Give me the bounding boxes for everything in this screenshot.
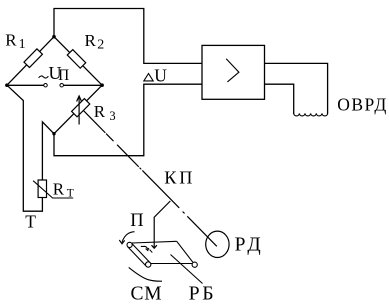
svg-text:СМ: СМ [131,284,163,303]
svg-text:3: 3 [109,109,115,123]
wire right supply terminal to right node [64,84,103,86]
svg-text:ОВРД: ОВРД [337,95,388,115]
svg-text:R: R [85,31,97,50]
roller end circle bottom-right [192,262,197,267]
AC tilde symbol [39,76,49,78]
svg-text:РД: РД [235,234,264,255]
svg-text:R: R [53,179,65,198]
rotation arrow of roller [122,232,135,243]
arc above SM label [129,267,162,281]
roller end circle bottom-left [146,262,151,267]
svg-text:П: П [58,67,69,84]
node bottom [52,132,55,135]
svg-text:R: R [94,102,106,121]
svg-text:1: 1 [19,37,26,52]
svg-text:П: П [130,211,143,231]
node top (bridge supply node) [52,35,56,39]
wire thermistor RT top to bottom node [42,122,54,180]
wire left node down to thermistor RT [7,85,43,211]
svg-text:T: T [67,188,74,200]
node right [100,83,104,87]
amplifier U box [202,45,265,99]
wire bottom node to amplifier lower input [54,84,202,156]
KP shaft line into motor RD [187,216,217,246]
wire amplifier lower output to winding [265,84,294,113]
roller end circle top-left [127,242,132,247]
svg-text:Т: Т [25,211,36,231]
thermistor RT body [38,180,46,198]
mechanical link KP dash-dot line from R3 wiper toward motor RD [82,109,185,213]
inductor winding OVRD (excitation winding) [294,113,328,116]
resistor R1 body [24,49,42,68]
supply terminal circle left [44,83,48,87]
pointer line to RB label [171,255,203,284]
wire bridge arm A-B (left node to top node) [7,37,54,85]
wire bridge arm B-C (top node to right node) [54,37,102,85]
thermistor RT diagonal mark [33,181,73,198]
wire left node to supply terminal [7,84,44,86]
motor RD circle [206,231,229,257]
chart paper sheet RB (parallelogram) [132,241,193,263]
wire bridge arm C-D (right node to bottom node) [54,85,102,134]
svg-text:2: 2 [97,37,104,52]
resistor R3 body (adjustable) [72,99,90,117]
small curved arrow at pen tip [141,246,148,249]
delta-U triangle symbol [144,74,153,81]
amplifier chevron symbol [226,59,239,82]
resistor R2 body [67,50,85,69]
wire amplifier upper output to winding [265,63,328,113]
resistor R3 wiper arrow [78,97,80,125]
svg-text:КП: КП [164,167,195,187]
svg-text:U: U [154,66,167,86]
svg-text:R: R [5,30,17,49]
roller cylinder of mechanism SM [128,243,150,266]
svg-text:РБ: РБ [189,282,217,303]
wire branch from KP to pen P [154,201,170,247]
node left [5,83,9,87]
wire top node to amplifier upper input [54,9,202,64]
arrowhead of pen P [152,245,157,248]
supply terminal circle right [60,83,64,87]
